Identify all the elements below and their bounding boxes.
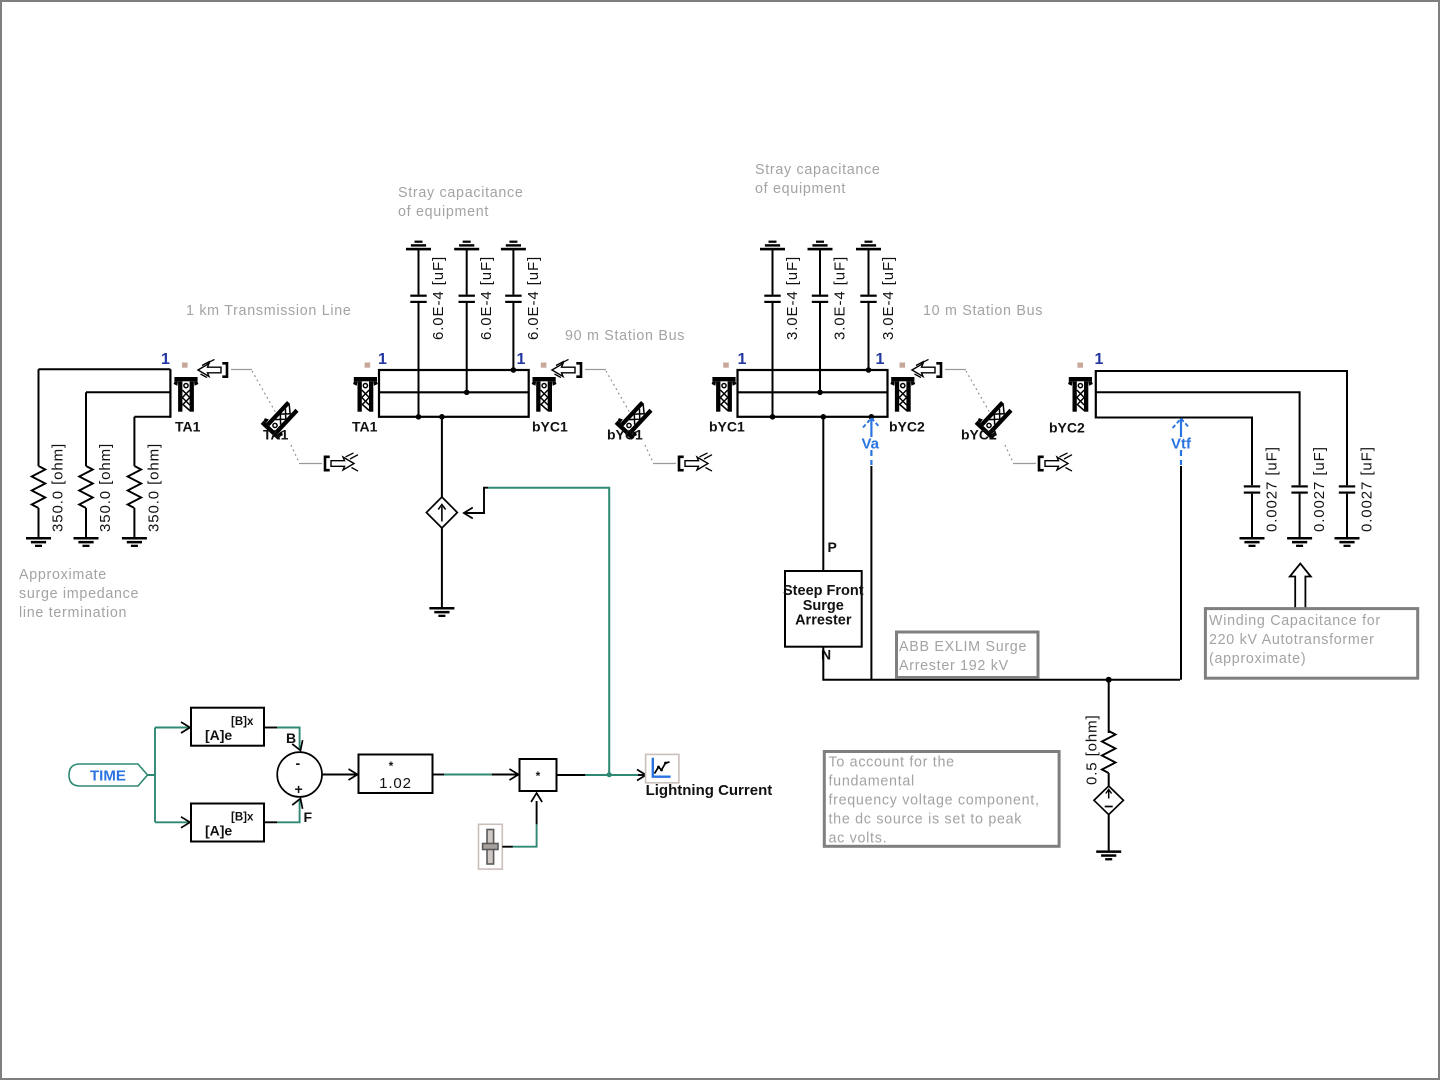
svg-text:3.0E-4 [uF]: 3.0E-4 [uF] [832,256,849,340]
svg-text:Stray capacitance: Stray capacitance [755,162,881,178]
svg-text:TIME: TIME [90,768,126,785]
svg-text:10 m Station Bus: 10 m Station Bus [923,303,1043,319]
svg-text:bYC1: bYC1 [607,427,643,443]
svg-text:1: 1 [517,351,526,368]
svg-text:B: B [286,730,296,746]
svg-text:of equipment: of equipment [755,181,846,197]
svg-text:surge impedance: surge impedance [19,586,139,602]
svg-text:(approximate): (approximate) [1209,651,1306,667]
svg-text:Arrester: Arrester [795,613,852,629]
svg-text:bYC1: bYC1 [709,419,745,435]
svg-text:[A]e: [A]e [205,823,232,839]
svg-text:frequency voltage component,: frequency voltage component, [829,793,1040,809]
svg-text:6.0E-4 [uF]: 6.0E-4 [uF] [478,256,495,340]
svg-text:-: - [296,755,301,771]
svg-text:bYC2: bYC2 [961,427,997,443]
svg-text:bYC2: bYC2 [1049,420,1085,436]
svg-text:bYC2: bYC2 [889,419,925,435]
svg-text:Stray capacitance: Stray capacitance [398,185,524,201]
svg-text:3.0E-4 [uF]: 3.0E-4 [uF] [784,256,801,340]
svg-text:Approximate: Approximate [19,567,107,583]
svg-text:350.0 [ohm]: 350.0 [ohm] [145,443,162,532]
svg-text:Va: Va [862,436,880,453]
svg-text:[B]x: [B]x [231,812,254,824]
svg-text:3.0E-4 [uF]: 3.0E-4 [uF] [880,256,897,340]
svg-text:1: 1 [738,351,747,368]
svg-text:+: + [295,781,303,797]
svg-text:TA1: TA1 [352,419,378,435]
svg-text:6.0E-4 [uF]: 6.0E-4 [uF] [525,256,542,340]
svg-text:Lightning Current: Lightning Current [646,782,773,799]
svg-text:0.5 [ohm]: 0.5 [ohm] [1084,714,1101,785]
svg-text:To account for the: To account for the [829,755,955,771]
svg-text:1: 1 [161,351,170,368]
svg-text:TA1: TA1 [175,419,201,435]
svg-text:*: * [389,759,394,773]
svg-text:1: 1 [1095,351,1104,368]
svg-text:Arrester 192 kV: Arrester 192 kV [899,658,1009,674]
svg-text:the dc source is set to peak: the dc source is set to peak [829,812,1023,828]
svg-text:Vtf: Vtf [1171,436,1192,453]
svg-text:1 km Transmission Line: 1 km Transmission Line [186,303,352,319]
svg-text:90 m Station Bus: 90 m Station Bus [565,328,685,344]
svg-text:1.02: 1.02 [379,775,412,792]
svg-text:fundamental: fundamental [829,774,915,790]
svg-text:P: P [828,539,837,555]
svg-text:[B]x: [B]x [231,716,254,728]
svg-text:0.0027 [uF]: 0.0027 [uF] [1264,446,1281,532]
svg-text:ac volts.: ac volts. [829,831,888,847]
svg-text:Steep Front: Steep Front [783,583,864,599]
svg-text:bYC1: bYC1 [532,419,568,435]
svg-text:*: * [536,769,541,783]
svg-text:F: F [304,809,313,825]
svg-text:0.0027 [uF]: 0.0027 [uF] [1359,446,1376,532]
svg-text:of equipment: of equipment [398,204,489,220]
svg-text:220 kV Autotransformer: 220 kV Autotransformer [1209,632,1375,648]
svg-text:1: 1 [876,351,885,368]
svg-text:1: 1 [378,351,387,368]
svg-text:[A]e: [A]e [205,727,232,743]
svg-text:0.0027 [uF]: 0.0027 [uF] [1311,446,1328,532]
svg-text:350.0 [ohm]: 350.0 [ohm] [50,443,67,532]
svg-text:line termination: line termination [19,605,127,621]
svg-text:6.0E-4 [uF]: 6.0E-4 [uF] [430,256,447,340]
svg-text:ABB EXLIM Surge: ABB EXLIM Surge [899,639,1027,655]
svg-text:350.0 [ohm]: 350.0 [ohm] [97,443,114,532]
svg-text:TA1: TA1 [263,427,289,443]
svg-text:Winding Capacitance for: Winding Capacitance for [1209,613,1381,629]
